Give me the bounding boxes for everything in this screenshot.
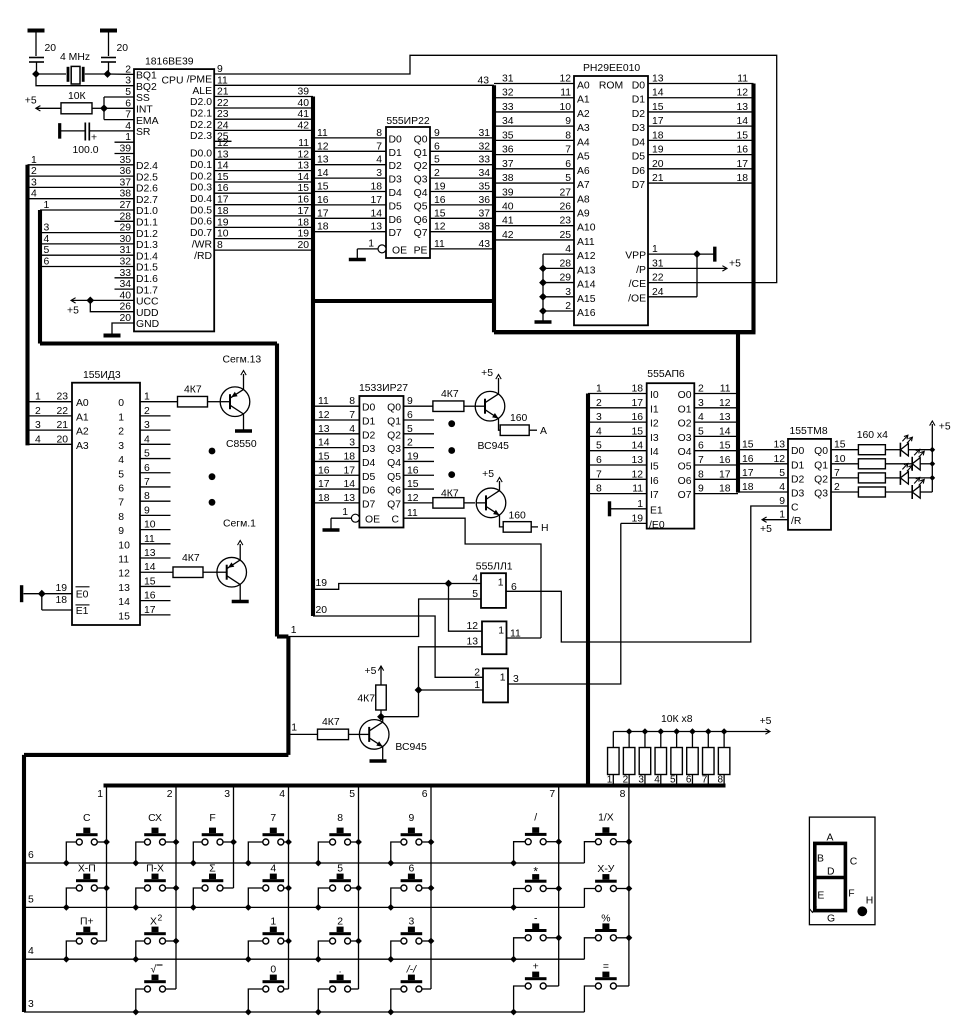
wire to gate3 input 1 [419, 689, 484, 691]
keyboard column 7 wire [558, 786, 560, 987]
svg-text:1: 1 [270, 917, 276, 928]
svg-text:1533ИР27: 1533ИР27 [359, 383, 408, 394]
svg-text:D0.4: D0.4 [190, 194, 212, 205]
svg-text:1: 1 [35, 392, 41, 403]
svg-text:12: 12 [466, 621, 478, 632]
svg-text:4: 4 [349, 424, 355, 435]
CPU U1 1816BE39 body [134, 57, 214, 332]
svg-text:34: 34 [502, 116, 514, 127]
svg-text:I2: I2 [650, 419, 659, 430]
svg-text:2: 2 [474, 667, 480, 678]
bus D1 vertical x277 [275, 344, 279, 637]
ground symbol above capacitor C1 [28, 31, 45, 57]
junction key-column [428, 938, 435, 945]
wire net 43 ALE to address bus [214, 75, 494, 86]
key 7 col4 row6 [248, 813, 288, 863]
svg-text:Q3: Q3 [814, 489, 828, 500]
svg-text:D1.7: D1.7 [136, 285, 158, 296]
junction pullup 7 [705, 728, 712, 735]
svg-text:2: 2 [698, 384, 704, 395]
svg-text:5: 5 [118, 469, 124, 480]
svg-text:D1: D1 [389, 148, 403, 159]
svg-text:22: 22 [56, 406, 68, 417]
svg-text:Q2: Q2 [387, 430, 401, 441]
junction LED Q1 [929, 461, 935, 467]
junction key-column [173, 885, 180, 892]
junction key-row [387, 904, 394, 911]
gate U6.3 555LL1 [474, 667, 519, 702]
svg-text:19: 19 [55, 583, 67, 594]
svg-text:38: 38 [478, 222, 490, 233]
key . col5 row3 [318, 965, 358, 1013]
junction key-row [315, 1009, 322, 1016]
svg-text:D2.4: D2.4 [136, 161, 158, 172]
key Х-У col8 row5 [584, 864, 629, 907]
svg-text:+5: +5 [760, 524, 772, 535]
svg-text:Q1: Q1 [814, 460, 828, 471]
svg-text:16: 16 [736, 145, 748, 156]
register U5 1533IR27 body [359, 383, 408, 528]
svg-text:D4: D4 [632, 137, 646, 148]
U2 left pins D0-D7 [313, 128, 402, 239]
svg-text:G: G [827, 913, 835, 924]
wire gate2 output 11 [507, 637, 542, 639]
svg-text:12: 12 [118, 569, 130, 580]
svg-text:1: 1 [342, 507, 348, 518]
svg-text:Сегм.13: Сегм.13 [223, 355, 262, 366]
svg-text:19: 19 [434, 182, 446, 193]
junction key-column [626, 838, 633, 845]
capacitor C3 100.0 electrolytic [60, 123, 134, 157]
svg-text:+: + [91, 133, 97, 144]
svg-text:E1: E1 [76, 606, 89, 617]
svg-text:0: 0 [270, 965, 276, 976]
svg-text:А16: А16 [577, 308, 596, 319]
key 0 col4 row3 [248, 965, 288, 1013]
svg-text:+5: +5 [760, 716, 772, 727]
svg-text:6: 6 [565, 159, 571, 170]
svg-text:F: F [848, 889, 854, 900]
svg-text:I0: I0 [650, 390, 659, 401]
svg-text:7: 7 [596, 469, 602, 480]
svg-text:38: 38 [502, 173, 514, 184]
svg-text:39: 39 [297, 87, 309, 98]
svg-text:20: 20 [652, 159, 664, 170]
svg-text:А4: А4 [577, 137, 590, 148]
svg-text:Q5: Q5 [414, 201, 428, 212]
svg-text:D0.0: D0.0 [190, 149, 212, 160]
junction key-row [387, 860, 394, 867]
svg-text:42: 42 [297, 120, 309, 131]
junction key-row [510, 1009, 517, 1016]
U8 C pin [779, 496, 799, 514]
svg-text:Q0: Q0 [414, 134, 428, 145]
svg-text:10: 10 [559, 102, 571, 113]
key Х-П col1 row5 [66, 864, 106, 908]
svg-text:Q3: Q3 [387, 444, 401, 455]
svg-text:43: 43 [478, 239, 490, 250]
svg-text:4: 4 [31, 189, 37, 200]
CPU right pin names and numbers [187, 64, 229, 262]
svg-text:34: 34 [478, 168, 490, 179]
svg-text:+5: +5 [482, 469, 494, 480]
junction key-row [245, 1009, 252, 1016]
svg-text:20: 20 [56, 434, 68, 445]
U4 output pins 0-15 [118, 392, 170, 623]
U7 E1 pin with bar [610, 499, 663, 517]
bus D1 vertical x288 [286, 637, 290, 755]
wire emitter to segment 13 arrow [223, 355, 262, 390]
key - col7 row4 [514, 913, 559, 959]
svg-text:4К7: 4К7 [441, 489, 459, 500]
ROM address pins A0-A11 from bus [494, 74, 596, 248]
U5 /OE pin with bubble and ground [323, 507, 381, 530]
svg-text:D7: D7 [389, 228, 403, 239]
svg-text:/-/: /-/ [406, 965, 417, 976]
svg-text:А15: А15 [577, 294, 596, 305]
svg-text:O3: O3 [678, 433, 692, 444]
svg-text:А10: А10 [577, 223, 596, 234]
svg-text:4К7: 4К7 [357, 694, 375, 705]
svg-text:5: 5 [44, 245, 50, 256]
svg-text:31: 31 [478, 128, 490, 139]
svg-text:D2.5: D2.5 [136, 172, 158, 183]
ROM VPP pin to +5 bar [625, 244, 715, 262]
svg-text:F: F [209, 813, 215, 824]
svg-text:А6: А6 [577, 166, 590, 177]
svg-text:13: 13 [631, 455, 643, 466]
svg-text:13: 13 [466, 637, 478, 648]
transistor Q1 C8550 PNP [220, 387, 250, 417]
svg-text:15: 15 [118, 611, 130, 622]
junction key-column [428, 839, 435, 846]
svg-text:ALE: ALE [192, 86, 212, 97]
resistor R2 4K7 segment 13 [140, 385, 221, 407]
7-segment display legend [809, 817, 875, 925]
wire UDD [90, 300, 134, 311]
svg-text:СХ: СХ [148, 813, 162, 824]
wire collector to ground [232, 585, 249, 602]
svg-text:9: 9 [698, 484, 704, 495]
svg-text:160 х4: 160 х4 [857, 430, 888, 441]
svg-text:Q6: Q6 [414, 215, 428, 226]
junction VPP [693, 250, 701, 258]
CPU pin 28 stub [115, 220, 135, 222]
svg-text:15: 15 [742, 440, 754, 451]
svg-text:8: 8 [698, 469, 704, 480]
svg-text:1: 1 [31, 155, 37, 166]
keyboard column 2 wire [175, 786, 177, 990]
junction A16 [539, 307, 547, 315]
svg-text:D5: D5 [632, 152, 646, 163]
key 1/X col8 row6 [584, 813, 629, 863]
svg-text:7: 7 [549, 789, 555, 800]
junction collector node [377, 713, 385, 721]
U7 input pins I0-I7 [588, 384, 659, 502]
svg-text:14: 14 [297, 172, 309, 183]
svg-text:O7: O7 [678, 490, 692, 501]
keyboard column 1 wire [106, 786, 108, 942]
svg-text:1: 1 [474, 680, 480, 691]
svg-text:А8: А8 [577, 194, 590, 205]
CPU left pin names and numbers [119, 64, 159, 330]
junction INT node [100, 104, 108, 112]
bus D2 vertical left [25, 165, 29, 446]
key 5 col5 row5 [318, 864, 358, 908]
junction pullup 3 [642, 728, 649, 735]
svg-text:E1: E1 [650, 505, 663, 516]
svg-text:7: 7 [118, 498, 124, 509]
junction pullup 8 [721, 728, 728, 735]
svg-text:Е: Е [817, 890, 824, 901]
svg-text:/P: /P [636, 265, 646, 276]
svg-text:10К х8: 10К х8 [661, 714, 693, 725]
ellipsis dots U5 outputs [448, 420, 455, 478]
svg-text:А7: А7 [577, 180, 590, 191]
svg-text:3: 3 [596, 412, 602, 423]
svg-text:D: D [827, 866, 835, 877]
svg-text:С8550: С8550 [226, 439, 257, 450]
svg-text:4: 4 [779, 482, 785, 493]
svg-text:/R: /R [791, 516, 802, 527]
svg-text:22: 22 [652, 273, 664, 284]
U4 E0 E1 enable pins [22, 583, 90, 617]
svg-text:C: C [83, 813, 91, 824]
svg-text:6: 6 [28, 850, 34, 861]
ROM data bus vertical right [751, 84, 755, 333]
U5 left pins D0-D7 [313, 396, 376, 510]
svg-text:I5: I5 [650, 462, 659, 473]
svg-text:7: 7 [270, 813, 276, 824]
svg-text:13: 13 [719, 412, 731, 423]
resistor R8 4K7 pullup [357, 685, 386, 717]
svg-text:CPU: CPU [162, 76, 184, 87]
key % col8 row4 [584, 913, 629, 959]
junction key-row [510, 904, 517, 911]
svg-text:18: 18 [736, 173, 748, 184]
junction key-column [173, 938, 180, 945]
svg-text:D4: D4 [362, 458, 376, 469]
svg-text:3: 3 [28, 999, 34, 1010]
U4 address inputs A0-A3 [28, 392, 89, 452]
svg-text:4К7: 4К7 [441, 389, 459, 400]
svg-text:18: 18 [742, 482, 754, 493]
svg-text:12: 12 [631, 469, 643, 480]
junction key-row [315, 956, 322, 963]
svg-text:16: 16 [742, 454, 754, 465]
svg-text:20: 20 [117, 43, 129, 54]
svg-text:D6: D6 [632, 166, 646, 177]
svg-text:А2: А2 [577, 109, 590, 120]
junction key-column [103, 885, 110, 892]
junction pullup 4 [657, 728, 664, 735]
ROM U3 PH29EE010 body [574, 63, 648, 325]
bus bridge horizontal [313, 299, 494, 303]
svg-text:D1.3: D1.3 [136, 240, 158, 251]
svg-text:1: 1 [498, 578, 504, 589]
junction E0 [38, 590, 46, 598]
svg-text:19: 19 [297, 229, 309, 240]
svg-text:3: 3 [698, 398, 704, 409]
svg-text:0: 0 [118, 398, 124, 409]
svg-text:160: 160 [510, 413, 528, 424]
CPU pin 1 stub [115, 141, 135, 143]
wire collector to +5 [482, 469, 502, 491]
svg-text:11: 11 [318, 396, 329, 407]
svg-text:4К7: 4К7 [184, 385, 202, 396]
svg-text:23: 23 [559, 216, 571, 227]
data bus vertical thick [311, 97, 315, 617]
junction key-column [626, 934, 633, 941]
svg-text:ВС945: ВС945 [395, 742, 427, 753]
svg-text:17: 17 [370, 195, 382, 206]
key СХ col2 row6 [136, 813, 176, 863]
junction LED Q2 [929, 475, 935, 481]
svg-text:D1.5: D1.5 [136, 263, 158, 274]
svg-text:А12: А12 [577, 251, 596, 262]
svg-text:11: 11 [560, 88, 571, 99]
CPU pin 39 stub [115, 153, 135, 155]
key 2 col5 row4 [318, 917, 358, 960]
svg-text:4: 4 [279, 789, 285, 800]
wires D1.0-D1.5 to bus with net labels [40, 200, 134, 268]
svg-text:6: 6 [596, 455, 602, 466]
junction key-column [355, 885, 362, 892]
wire net 19 to gate 1 input 4 [313, 578, 481, 589]
LED VD2 [912, 449, 932, 471]
svg-text:14: 14 [118, 597, 130, 608]
svg-text:16: 16 [631, 412, 643, 423]
svg-text:C: C [791, 503, 799, 514]
junction key-row [510, 956, 517, 963]
svg-text:12: 12 [773, 454, 785, 465]
svg-text:ВС945: ВС945 [478, 441, 510, 452]
junction A15 [539, 293, 547, 301]
svg-text:D3: D3 [362, 444, 376, 455]
svg-text:А3: А3 [577, 123, 590, 134]
svg-text:7: 7 [565, 145, 571, 156]
svg-text:9: 9 [118, 526, 124, 537]
junction gate3 input 1 branch [415, 686, 423, 694]
svg-text:D2.3: D2.3 [190, 131, 212, 142]
svg-text:2: 2 [337, 917, 343, 928]
+5 supply at UCC [67, 298, 134, 317]
svg-text:3: 3 [565, 287, 571, 298]
svg-text:3: 3 [31, 177, 37, 188]
svg-text:1: 1 [652, 244, 658, 255]
svg-text:D0.1: D0.1 [190, 160, 212, 171]
wire BQ2 [36, 74, 134, 86]
buffer U7 555AP6 body [647, 369, 695, 529]
key 1 col4 row4 [248, 917, 288, 960]
svg-text:1: 1 [779, 510, 785, 521]
junction key-column [626, 885, 633, 892]
svg-text:UDD: UDD [136, 308, 159, 319]
svg-text:15: 15 [652, 102, 664, 113]
ROM /P pin to +5 [636, 258, 741, 276]
svg-text:17: 17 [343, 465, 355, 476]
resistor 160 at Q2 [831, 473, 900, 483]
svg-text:11: 11 [434, 239, 445, 250]
svg-text:D3: D3 [389, 175, 403, 186]
svg-text:Q1: Q1 [414, 148, 428, 159]
svg-text:I6: I6 [650, 476, 659, 487]
svg-text:25: 25 [559, 230, 571, 241]
svg-text:6: 6 [118, 483, 124, 494]
svg-text:А2: А2 [76, 427, 89, 438]
svg-text:1: 1 [637, 499, 643, 510]
svg-text:100.0: 100.0 [73, 145, 99, 156]
svg-text:SS: SS [136, 93, 150, 104]
svg-text:Q0: Q0 [387, 403, 401, 414]
svg-text:12: 12 [719, 398, 731, 409]
svg-text:Q2: Q2 [414, 161, 428, 172]
svg-text:20: 20 [297, 240, 309, 251]
svg-text:+: + [533, 962, 539, 973]
svg-text:Q7: Q7 [387, 499, 401, 510]
svg-text:D1: D1 [791, 460, 805, 471]
svg-text:17: 17 [317, 208, 329, 219]
junction key-row [387, 1009, 394, 1016]
svg-text:20: 20 [45, 43, 57, 54]
svg-text:O2: O2 [678, 419, 692, 430]
svg-text:D0.3: D0.3 [190, 183, 212, 194]
svg-text:155ИД3: 155ИД3 [83, 370, 121, 381]
svg-text:19: 19 [652, 145, 664, 156]
svg-text:П+: П+ [80, 917, 94, 928]
wire net19 to gate2 input 12 [449, 584, 483, 632]
junction A13 [539, 264, 547, 272]
svg-text:А1: А1 [76, 412, 89, 423]
svg-text:Н: Н [541, 523, 549, 534]
svg-text:4: 4 [596, 426, 602, 437]
svg-text:1: 1 [498, 626, 504, 637]
svg-text:*: * [533, 865, 538, 879]
svg-text:13: 13 [736, 102, 748, 113]
svg-text:7: 7 [376, 141, 382, 152]
key 9 col6 row6 [391, 813, 431, 863]
svg-text:4: 4 [35, 434, 41, 445]
svg-text:Х: Х [150, 917, 157, 928]
svg-text:D0: D0 [632, 81, 646, 92]
svg-text:4: 4 [118, 455, 124, 466]
svg-text:D5: D5 [389, 201, 403, 212]
svg-text:OE: OE [392, 245, 407, 256]
svg-text:8: 8 [118, 512, 124, 523]
junction key-column [103, 839, 110, 846]
resistor R3 4K7 segment 1 [140, 553, 217, 577]
key SQRT col2 row3 [136, 964, 176, 1013]
svg-text:7: 7 [698, 455, 704, 466]
wire VPP to /OE [696, 254, 698, 297]
svg-text:Q4: Q4 [414, 188, 428, 199]
svg-text:D5: D5 [362, 472, 376, 483]
svg-text:6: 6 [434, 141, 440, 152]
svg-text:8: 8 [565, 130, 571, 141]
junction UCC [86, 297, 94, 305]
svg-text:/: / [534, 813, 537, 824]
svg-text:D1.6: D1.6 [136, 274, 158, 285]
svg-text:20: 20 [316, 605, 328, 616]
svg-text:UCC: UCC [136, 297, 159, 308]
svg-text:D2.7: D2.7 [136, 195, 158, 206]
capacitor C1 20 [29, 43, 56, 74]
capacitor C2 20 [101, 43, 128, 74]
svg-text:4: 4 [376, 155, 382, 166]
svg-text:13: 13 [297, 161, 309, 172]
svg-text:/WR: /WR [192, 239, 213, 250]
svg-text:14: 14 [318, 438, 330, 449]
